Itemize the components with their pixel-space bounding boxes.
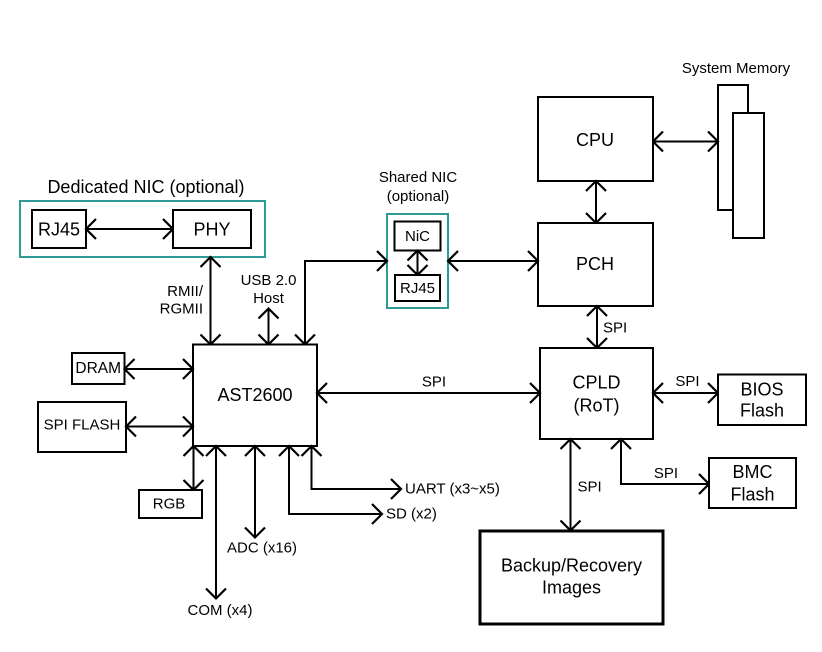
svg-text:DRAM: DRAM xyxy=(75,360,121,377)
svg-text:SPI: SPI xyxy=(675,373,699,390)
wire AST2600 to ADC (x16) xyxy=(254,446,256,538)
box CPU xyxy=(538,97,653,181)
wire AST2600 to CPLD (SPI) xyxy=(317,392,540,394)
box RGB xyxy=(139,490,202,518)
wire CPLD to BMC Flash (L-shape, SPI) xyxy=(621,439,709,484)
svg-text:PCH: PCH xyxy=(576,254,614,274)
box CPLD (RoT) xyxy=(540,348,653,439)
box DRAM xyxy=(72,353,125,384)
svg-text:(optional): (optional) xyxy=(387,188,450,205)
wire AST2600 to COM (x4) xyxy=(215,446,217,599)
svg-text:BIOS: BIOS xyxy=(740,380,783,400)
box NiC xyxy=(395,222,441,251)
svg-text:Dedicated NIC (optional): Dedicated NIC (optional) xyxy=(47,177,244,197)
svg-text:RGB: RGB xyxy=(153,496,186,513)
svg-text:USB 2.0: USB 2.0 xyxy=(241,272,297,289)
wire AST2600 to UART (x3~x5) (L-shape) xyxy=(312,446,402,489)
box PCH xyxy=(538,223,653,306)
box Backup/Recovery Images xyxy=(480,531,663,624)
wire AST2600 to Shared NIC (L-shape) xyxy=(305,261,387,345)
wire DRAM to AST2600 xyxy=(125,368,194,370)
svg-text:BMC: BMC xyxy=(733,462,773,482)
svg-text:CPLD: CPLD xyxy=(572,373,620,393)
box PHY xyxy=(173,210,251,248)
svg-text:(RoT): (RoT) xyxy=(574,396,620,416)
box BMC Flash xyxy=(709,458,796,508)
svg-text:Flash: Flash xyxy=(740,401,784,421)
svg-text:RJ45: RJ45 xyxy=(400,280,435,297)
wire PCH to CPLD (SPI) xyxy=(596,306,598,348)
group box Dedicated NIC (teal) xyxy=(20,201,265,257)
svg-text:Images: Images xyxy=(542,578,601,598)
group box Shared NIC (teal) xyxy=(387,214,448,308)
wire AST2600 to RGB xyxy=(193,446,195,490)
svg-text:NiC: NiC xyxy=(405,228,430,245)
svg-text:System Memory: System Memory xyxy=(682,60,791,77)
svg-text:SPI FLASH: SPI FLASH xyxy=(44,417,121,434)
svg-text:AST2600: AST2600 xyxy=(217,385,292,405)
svg-text:Shared NIC: Shared NIC xyxy=(379,169,458,186)
wire CPU to PCH xyxy=(595,181,597,223)
svg-text:CPU: CPU xyxy=(576,130,614,150)
box BIOS Flash xyxy=(718,375,806,426)
wire AST2600 to SD (x2) (L-shape) xyxy=(289,446,382,514)
wire USB 2.0 Host to AST2600 xyxy=(268,309,270,345)
wire SPI FLASH to AST2600 xyxy=(126,426,193,428)
box RJ45 (shared) xyxy=(395,275,440,301)
svg-text:RGMII: RGMII xyxy=(160,301,203,318)
box AST2600 xyxy=(193,345,317,447)
svg-text:RJ45: RJ45 xyxy=(38,220,80,240)
wire CPU to System Memory xyxy=(653,141,718,143)
svg-text:SPI: SPI xyxy=(654,465,678,482)
svg-text:RMII/: RMII/ xyxy=(167,283,204,300)
memory module front rectangle xyxy=(733,113,764,238)
svg-text:SPI: SPI xyxy=(578,479,602,496)
svg-text:Host: Host xyxy=(253,290,285,307)
wire RJ45 to PHY xyxy=(86,228,173,230)
svg-text:SD (x2): SD (x2) xyxy=(386,506,437,523)
wire CPLD to BIOS Flash (SPI) xyxy=(653,392,718,394)
box RJ45 (dedicated) xyxy=(32,210,86,248)
wire Shared NIC to PCH xyxy=(448,260,538,262)
svg-text:UART (x3~x5): UART (x3~x5) xyxy=(405,481,500,498)
box SPI FLASH xyxy=(38,402,126,452)
memory module back rectangle xyxy=(718,85,748,210)
svg-text:SPI: SPI xyxy=(603,320,627,337)
svg-text:PHY: PHY xyxy=(193,220,230,240)
wire PHY to AST2600 (RMII/RGMII) xyxy=(210,257,212,345)
svg-text:SPI: SPI xyxy=(422,374,446,391)
svg-text:COM (x4): COM (x4) xyxy=(188,602,253,619)
svg-text:Flash: Flash xyxy=(730,485,774,505)
svg-text:ADC (x16): ADC (x16) xyxy=(227,540,297,557)
wire CPLD to Backup/Recovery Images (SPI) xyxy=(570,439,572,531)
svg-text:Backup/Recovery: Backup/Recovery xyxy=(501,556,642,576)
wire NiC to RJ45 xyxy=(417,251,419,276)
